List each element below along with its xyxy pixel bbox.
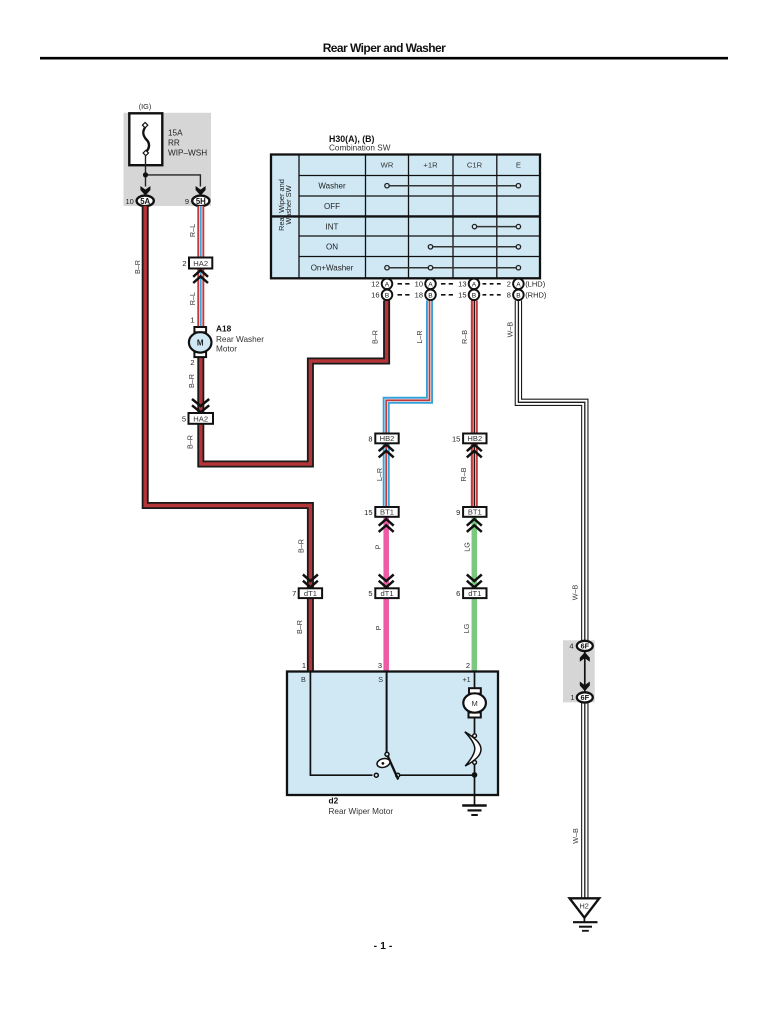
svg-text:B–R: B–R — [295, 620, 304, 634]
svg-text:(RHD): (RHD) — [525, 291, 547, 300]
junction node at fuse output — [143, 172, 148, 177]
fuse 15A RR WIP-WSH body — [129, 113, 162, 165]
svg-text:15A: 15A — [168, 128, 183, 137]
svg-text:M: M — [471, 699, 477, 708]
switch blade — [387, 754, 398, 779]
svg-text:BT1: BT1 — [380, 508, 394, 517]
arrow into 5H — [196, 186, 206, 196]
svg-text:B: B — [516, 293, 521, 300]
arrow down into 6F 1 — [580, 682, 590, 692]
fuse element wire — [143, 127, 149, 152]
svg-text:BT1: BT1 — [468, 508, 482, 517]
motor M body — [463, 693, 486, 712]
svg-text:6: 6 — [456, 589, 460, 598]
svg-text:15: 15 — [452, 434, 460, 443]
svg-text:P: P — [374, 625, 383, 630]
svg-text:WR: WR — [381, 161, 394, 170]
table row lines — [299, 175, 540, 177]
svg-text:6F: 6F — [580, 642, 589, 651]
svg-text:B–R: B–R — [133, 260, 142, 274]
svg-text:HB2: HB2 — [380, 434, 395, 443]
contact line On+Washer WR-E — [387, 267, 518, 269]
contact line Washer WR-E — [387, 185, 518, 187]
svg-text:W–B: W–B — [505, 322, 514, 338]
svg-text:B–R: B–R — [296, 539, 305, 553]
svg-text:Rear Wiper and Washer: Rear Wiper and Washer — [323, 41, 446, 55]
svg-text:3: 3 — [378, 661, 382, 670]
dashes between A pins — [398, 283, 410, 285]
svg-text:W–B: W–B — [571, 828, 580, 844]
svg-text:5: 5 — [368, 589, 372, 598]
wire R-B from combination SW pin C1R to HB2 and BT1 — [471, 301, 478, 508]
internal wire cam to junction — [474, 764, 476, 805]
switch pivot circle — [385, 752, 389, 756]
svg-text:R–B: R–B — [460, 330, 469, 344]
svg-text:15: 15 — [364, 508, 372, 517]
connector 6F upper — [577, 641, 593, 651]
connector 5A — [137, 196, 154, 207]
svg-text:R–B: R–B — [459, 467, 468, 481]
svg-text:1: 1 — [302, 661, 306, 670]
dashes between B pins — [398, 294, 410, 296]
ground H2 triangle — [570, 898, 600, 917]
wire P from BT1 to rear wiper motor pin 3 — [383, 517, 389, 672]
svg-text:8: 8 — [507, 291, 511, 300]
motor A18 bottom terminal — [194, 352, 206, 357]
line between 6F connectors — [584, 650, 586, 693]
chevron connector below HB2 8 — [379, 445, 394, 458]
chevron connector below HB2 15 — [467, 445, 482, 458]
chevron connector above dT1 5 — [379, 575, 394, 588]
svg-text:dT1: dT1 — [380, 589, 393, 598]
connector 6F gray background — [563, 640, 595, 702]
svg-text:OFF: OFF — [324, 202, 340, 211]
svg-text:A: A — [385, 282, 390, 289]
chevron connector below HA2 2 — [193, 270, 208, 283]
arrow up into 6F 4 — [580, 652, 590, 662]
svg-text:HB2: HB2 — [467, 434, 482, 443]
wire B-R from washer motor pin 2 to combination SW pin WR — [201, 301, 387, 465]
wire branch to 5H — [146, 175, 201, 187]
svg-text:2: 2 — [190, 358, 194, 367]
svg-text:L–R: L–R — [415, 330, 424, 343]
svg-text:9: 9 — [456, 508, 460, 517]
svg-text:E: E — [516, 161, 521, 170]
header rule — [40, 57, 728, 60]
svg-text:WIP–WSH: WIP–WSH — [168, 148, 207, 157]
svg-text:M: M — [197, 338, 204, 347]
motor A18 body — [189, 332, 212, 352]
svg-text:Motor: Motor — [216, 344, 237, 353]
svg-text:On+Washer: On+Washer — [311, 263, 354, 272]
motor M top terminal — [469, 688, 481, 693]
svg-text:(LHD): (LHD) — [525, 280, 546, 289]
connector 5H — [192, 196, 209, 207]
svg-text:HA2: HA2 — [193, 415, 208, 424]
junction node — [472, 772, 478, 778]
svg-text:1: 1 — [570, 693, 574, 702]
svg-text:LG: LG — [462, 542, 471, 552]
svg-text:RR: RR — [168, 138, 180, 147]
svg-text:2: 2 — [182, 259, 186, 268]
svg-text:R–L: R–L — [188, 292, 197, 305]
svg-text:+1R: +1R — [423, 161, 438, 170]
cam contact circle top — [473, 734, 477, 738]
wire LG from BT1 to rear wiper motor pin 2 — [472, 517, 478, 672]
svg-text:P: P — [373, 544, 382, 549]
svg-text:+1: +1 — [462, 675, 470, 684]
chevron connector above dT1 7 — [303, 575, 318, 588]
svg-text:5A: 5A — [140, 197, 150, 206]
svg-text:16: 16 — [371, 291, 379, 300]
svg-text:(IG): (IG) — [139, 102, 152, 111]
svg-text:W–B: W–B — [570, 585, 579, 601]
combination switch table H30 — [271, 155, 540, 279]
internal wire from B — [310, 672, 372, 776]
svg-text:Washer SW: Washer SW — [284, 185, 293, 224]
motor M bottom terminal — [469, 713, 481, 718]
motor d2 enclosure — [287, 672, 498, 796]
switch fixed contact left — [374, 773, 378, 777]
svg-text:6F: 6F — [580, 693, 589, 702]
svg-text:B: B — [301, 675, 306, 684]
svg-text:B: B — [428, 293, 433, 300]
svg-text:INT: INT — [326, 222, 339, 231]
chevron connector above HA2 5 — [192, 399, 209, 412]
svg-text:18: 18 — [415, 291, 423, 300]
svg-text:B–R: B–R — [187, 374, 196, 388]
wire B-R from connector 5A to rear wiper motor pin 1 — [145, 206, 310, 672]
chevron connector below BT1 9 — [467, 519, 482, 532]
svg-text:A: A — [428, 282, 433, 289]
arrow into 5A — [140, 186, 150, 196]
svg-text:7: 7 — [292, 589, 296, 598]
svg-text:B–R: B–R — [371, 330, 380, 344]
svg-text:2: 2 — [507, 280, 511, 289]
svg-text:10: 10 — [415, 280, 423, 289]
motor A18 top terminal — [194, 327, 206, 332]
svg-text:dT1: dT1 — [468, 589, 481, 598]
svg-text:Rear Wiper Motor: Rear Wiper Motor — [329, 807, 394, 816]
cam contact circle bottom — [473, 761, 477, 765]
contact line ON +1R-E — [431, 246, 519, 248]
svg-text:LG: LG — [462, 623, 471, 633]
svg-text:B: B — [385, 293, 390, 300]
pin stub lines under table — [386, 278, 388, 301]
wire W-B from combination SW pin E to connector 6F — [518, 301, 584, 644]
svg-text:R–L: R–L — [188, 224, 197, 237]
svg-text:A: A — [516, 282, 521, 289]
svg-text:B–R: B–R — [186, 435, 195, 449]
ground symbol inside motor — [462, 804, 487, 806]
svg-text:A: A — [472, 282, 477, 289]
fuse terminal diamond top — [142, 122, 147, 127]
svg-text:d2: d2 — [329, 796, 339, 806]
wire W-B from connector 6F to ground H2 — [581, 700, 588, 899]
cam ellipse with dot — [376, 757, 391, 769]
svg-text:Combination SW: Combination SW — [329, 144, 391, 153]
svg-text:10: 10 — [125, 197, 133, 206]
contact line INT C1R-E — [475, 226, 519, 228]
svg-text:ON: ON — [326, 242, 338, 251]
svg-text:- 1 -: - 1 - — [374, 940, 393, 952]
svg-text:1: 1 — [190, 316, 194, 325]
wire R-L from connector 5H to washer motor pin 1 — [197, 206, 204, 328]
chevron connector above dT1 6 — [467, 575, 482, 588]
fuse terminal diamond bottom — [143, 150, 148, 155]
svg-text:C1R: C1R — [467, 161, 483, 170]
internal wire from S to switch pivot — [386, 672, 388, 753]
parking cam crescent — [465, 732, 481, 766]
chevron connector below BT1 15 — [379, 519, 394, 532]
svg-text:B: B — [472, 293, 477, 300]
svg-text:L–R: L–R — [375, 468, 384, 481]
svg-text:9: 9 — [185, 197, 189, 206]
svg-text:Rear Washer: Rear Washer — [216, 335, 264, 344]
svg-text:H30(A), (B): H30(A), (B) — [329, 134, 375, 144]
internal wire motor to cam — [474, 718, 476, 735]
svg-text:4: 4 — [569, 642, 573, 651]
fuse block background — [124, 113, 212, 206]
svg-text:2: 2 — [466, 661, 470, 670]
internal wire from right contact to junction — [400, 774, 475, 776]
svg-text:5H: 5H — [196, 197, 206, 206]
svg-text:15: 15 — [458, 291, 466, 300]
svg-text:5: 5 — [182, 415, 186, 424]
svg-text:dT1: dT1 — [304, 589, 317, 598]
connector 6F lower — [577, 692, 593, 702]
svg-text:13: 13 — [458, 280, 466, 289]
wire L-R from combination SW pin +1R to HB2 and BT1 — [386, 301, 429, 508]
svg-text:HA2: HA2 — [193, 259, 208, 268]
switch fixed contact right — [396, 773, 400, 777]
svg-text:A18: A18 — [216, 323, 232, 333]
svg-text:8: 8 — [368, 434, 372, 443]
table column lines — [298, 155, 300, 279]
ground H2 stub — [583, 918, 585, 922]
svg-text:12: 12 — [371, 280, 379, 289]
internal wire from +1 to motor — [474, 672, 476, 690]
svg-text:S: S — [378, 675, 383, 684]
svg-text:H2: H2 — [580, 902, 589, 911]
svg-text:Washer: Washer — [318, 182, 346, 191]
wire fuse output — [145, 156, 147, 187]
ground H2 hash lines — [573, 921, 598, 923]
